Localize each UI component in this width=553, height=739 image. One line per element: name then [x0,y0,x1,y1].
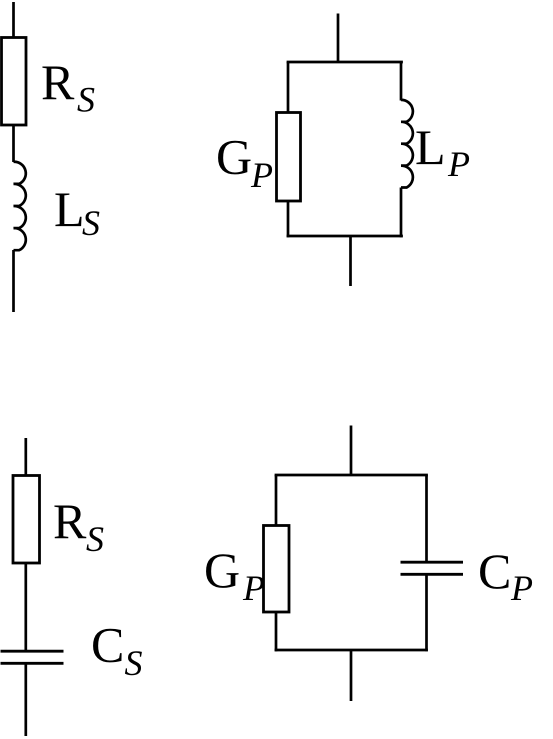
capacitor C_S top plate [1,650,64,653]
capacitor C_P top plate [401,561,464,564]
wire left branch lower [287,201,290,237]
svg-text:C: C [478,543,511,599]
conductance G_P box [264,526,290,613]
wire between R and L [12,125,15,162]
svg-text:P: P [510,568,533,608]
svg-text:L: L [415,119,446,175]
svg-text:R: R [53,493,87,549]
svg-text:G: G [204,542,240,598]
conductance G_P box [277,113,301,202]
svg-text:P: P [242,568,265,608]
wire right branch lower [425,574,428,651]
wire between R and C [24,563,27,651]
wire bottom rail [275,649,428,652]
wire top rail [275,474,428,477]
svg-text:P: P [250,155,273,195]
wire bottom lead [12,250,15,312]
wire right branch lower [400,188,403,238]
wire top rail [287,61,403,64]
wire bottom rail [287,235,403,238]
wire right branch upper [425,475,428,562]
wire top lead [12,2,15,38]
svg-text:G: G [216,129,252,185]
svg-text:P: P [447,144,470,184]
svg-text:C: C [91,617,124,673]
wire left branch upper [275,475,278,526]
svg-text:L: L [54,181,85,237]
wire top lead [24,438,27,476]
svg-text:S: S [125,643,143,683]
wire top stub [337,14,340,63]
resistor R_S [13,476,40,564]
svg-text:S: S [86,519,104,559]
wire top stub [350,426,353,476]
resistor R_S [2,38,27,126]
wire bottom stub [350,650,353,701]
wire bottom lead [24,663,27,736]
wire left branch upper [287,62,290,113]
wire right branch upper [400,62,403,101]
svg-text:S: S [82,203,100,243]
svg-text:S: S [77,80,95,120]
wire left branch lower [275,612,278,651]
wire bottom stub [349,236,352,286]
svg-text:R: R [41,54,75,110]
inductor L_P [401,100,413,188]
capacitor C_P bottom plate [401,573,464,576]
capacitor C_S bottom plate [1,662,64,665]
inductor L_S [14,162,26,250]
